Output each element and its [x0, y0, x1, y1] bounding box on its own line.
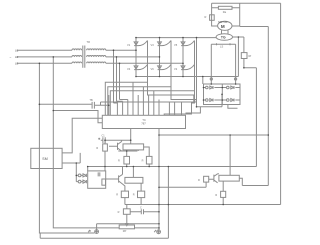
amplifier box A3: [219, 175, 239, 181]
wire AC phase line U: [17, 49, 73, 51]
diode input 2 circle: [78, 180, 81, 183]
svg-text:LS: LS: [220, 45, 223, 49]
wire outer right rail: [280, 3, 282, 204]
amplifier box A2: [125, 177, 143, 183]
amplifier box A1: [123, 144, 144, 150]
diode VD4: [231, 99, 234, 102]
resistor in block: [102, 179, 106, 185]
diode input 1 circle: [78, 174, 81, 177]
potentiometer wiper arrow: [126, 224, 128, 226]
wire secondary phase a to bridge col1: [106, 49, 136, 51]
wire R5 R6 bottoms: [125, 198, 141, 205]
thyristor bridge rail col2: [159, 38, 161, 77]
wire stage C input: [159, 182, 206, 187]
wire bus2 tap to IC: [53, 111, 102, 123]
resistor R4: [146, 156, 152, 164]
wire secondary phase b to bridge col2: [106, 56, 160, 58]
wire SM output 1 to IC: [62, 118, 102, 153]
svg-text:L1: L1: [15, 48, 19, 52]
thyristor bridge bottom bus: [136, 76, 238, 78]
thyristor V5: [181, 41, 194, 46]
summing block D: [88, 171, 106, 188]
potentiometer RP: [119, 225, 134, 229]
wire tacho feedback top: [243, 37, 245, 53]
wire gate route 6: [171, 65, 196, 103]
svg-text:M: M: [221, 24, 225, 29]
thyristor bridge top bus: [136, 37, 216, 39]
svg-text:R: R: [142, 160, 144, 163]
junction symbol 2 cross: [157, 230, 161, 234]
wire A2 top stub: [132, 167, 134, 178]
thyristor V3: [158, 41, 171, 46]
svg-text:V2: V2: [174, 67, 178, 71]
wire A1 output: [144, 147, 150, 156]
resistor R1: [103, 144, 108, 151]
wire R3 R4 bottoms: [127, 164, 150, 167]
wire secondary phase c to bridge col3: [106, 62, 183, 64]
svg-text:V4: V4: [127, 67, 131, 71]
wire stage link line: [88, 166, 257, 168]
wire bridge negative drop: [202, 77, 204, 85]
terminal circle right: [235, 78, 237, 80]
wire supply bus 1 (left vertical): [39, 63, 94, 233]
wire A3 top stub: [229, 135, 231, 175]
svg-text:TB: TB: [90, 99, 94, 102]
diode VD3 label circle: [227, 86, 230, 89]
wire rectifier row stubs: [204, 88, 241, 101]
diode input 1: [81, 174, 86, 177]
wire sync right lead: [95, 95, 109, 115]
wire motor right drop: [232, 3, 268, 26]
wire gate route 4: [148, 65, 194, 103]
capacitor C2: [130, 209, 159, 214]
motor loop top wire: [212, 2, 281, 4]
junction symbol 2: [157, 230, 161, 234]
thyristor bridge rail col3: [182, 38, 184, 77]
svg-text:C: C: [140, 206, 142, 209]
thyristor V4: [134, 65, 147, 70]
wire SM output 2: [62, 153, 80, 182]
wire Rf lower lead: [244, 59, 257, 68]
terminal circle left: [210, 78, 212, 80]
thyristor bridge rail col1: [135, 38, 137, 77]
wire armature return rail: [237, 37, 239, 77]
motor M armature: [218, 21, 232, 30]
resistor R8: [221, 191, 226, 197]
svg-text:RP: RP: [123, 230, 127, 233]
diode input 2: [81, 180, 86, 183]
svg-text:Rf: Rf: [249, 54, 252, 58]
capacitor C1: [103, 137, 105, 143]
wire feedback rail A: [255, 68, 257, 167]
svg-text:TG: TG: [221, 35, 226, 39]
wire pot right lead: [135, 227, 160, 229]
wire Q1 emitter rail: [118, 150, 138, 157]
svg-text:SM: SM: [42, 157, 47, 161]
svg-text:TR: TR: [87, 40, 91, 44]
wire A3 output: [239, 178, 268, 185]
resistor R3: [124, 156, 130, 164]
resistor R6: [138, 191, 145, 198]
polarity marks: [88, 230, 156, 232]
transformer T core: [83, 46, 85, 68]
diode VD2 label circle: [206, 99, 209, 102]
transistor Q1: [109, 140, 122, 151]
wire block D top stub: [87, 167, 89, 171]
wire RE stubs: [126, 205, 128, 224]
wire R1 leads: [104, 140, 106, 171]
wire trigger pin stubs: [114, 82, 182, 115]
svg-text:Ra: Ra: [223, 10, 227, 14]
wire AC phase line W: [17, 62, 73, 64]
wire IC right line: [159, 134, 268, 136]
wire motor-tacho links: [222, 30, 229, 34]
field winding frame: [211, 43, 235, 84]
thyristor V6: [158, 65, 171, 70]
svg-text:R: R: [116, 194, 118, 197]
wire sync drop b: [116, 57, 118, 101]
wire gate route 2: [164, 65, 194, 116]
plus mark: [98, 138, 100, 140]
resistor R starting: [210, 15, 215, 20]
thyristor V1: [134, 41, 147, 46]
diode VD3: [231, 86, 234, 89]
wire mid rail: [158, 129, 160, 230]
svg-text:V6: V6: [151, 67, 155, 71]
wire IC pin to stage A: [130, 129, 132, 144]
transformer T secondary coils: [87, 49, 106, 50]
wire bottom link line: [125, 204, 281, 206]
svg-text:~: ~: [10, 56, 12, 60]
svg-text:V1: V1: [127, 43, 131, 47]
wire TG right to field: [233, 36, 244, 38]
diode VD1: [210, 86, 213, 89]
svg-text:R: R: [96, 147, 98, 150]
wire gate route 5: [110, 41, 194, 116]
transistor Q2: [106, 167, 125, 192]
resistor Rf: [241, 53, 247, 59]
wire rectifier mid rail: [221, 84, 223, 105]
junction symbol 1: [95, 230, 99, 234]
svg-text:R: R: [215, 194, 217, 197]
resistor RE: [123, 209, 130, 215]
thyristor V2: [181, 65, 194, 70]
diode VD1 label circle: [206, 86, 209, 89]
wire gate route 3: [108, 41, 171, 116]
sync transformer TB bars: [92, 102, 94, 109]
diode VD2: [210, 99, 213, 102]
wire sync drop c: [119, 63, 121, 99]
svg-text:R: R: [118, 160, 120, 163]
resistor Ra: [218, 6, 232, 9]
junction symbol 1 cross: [95, 230, 99, 234]
svg-text:R: R: [198, 179, 200, 182]
svg-text:C1: C1: [102, 134, 106, 137]
wire right rail to border: [40, 167, 168, 239]
svg-text:V5: V5: [174, 43, 178, 47]
wire long gate bus: [101, 102, 197, 105]
svg-text:L2: L2: [15, 55, 19, 59]
wire supply bus 2 (left vertical): [53, 57, 119, 228]
svg-text:V3: V3: [151, 43, 155, 47]
block SM (setter): [31, 148, 62, 168]
diode VD4 label circle: [227, 99, 230, 102]
wire feedback rail B: [267, 27, 269, 186]
wire sync drop a: [113, 50, 115, 103]
svg-text:R: R: [133, 194, 135, 197]
svg-text:787: 787: [141, 121, 146, 125]
wire AC phase line V: [17, 56, 73, 58]
svg-text:L3: L3: [15, 62, 19, 66]
diode rectifier frame: [204, 84, 241, 105]
tacho generator TG: [216, 34, 232, 41]
wire Ra leads: [212, 7, 240, 9]
wire gate route 1: [105, 41, 147, 116]
resistor R7: [204, 176, 209, 182]
wire bridge positive to rectifier net: [186, 38, 223, 113]
resistor R5: [121, 191, 128, 198]
trigger IC block: [102, 115, 185, 128]
wire bus1 tap to sync: [39, 103, 91, 105]
svg-text:R: R: [118, 211, 120, 214]
wire motor left drop: [212, 3, 218, 26]
transformer T primary coils: [72, 49, 82, 50]
svg-text:R: R: [205, 15, 207, 19]
wire A2 bottom stub: [140, 183, 142, 191]
transistor Q3: [209, 174, 219, 183]
wire rectifier mid output: [222, 94, 238, 108]
capacitor in block: [98, 172, 100, 176]
wire lower tap line: [97, 224, 159, 230]
wire R8 stubs: [222, 181, 224, 204]
wire stage A feedback: [101, 139, 131, 141]
